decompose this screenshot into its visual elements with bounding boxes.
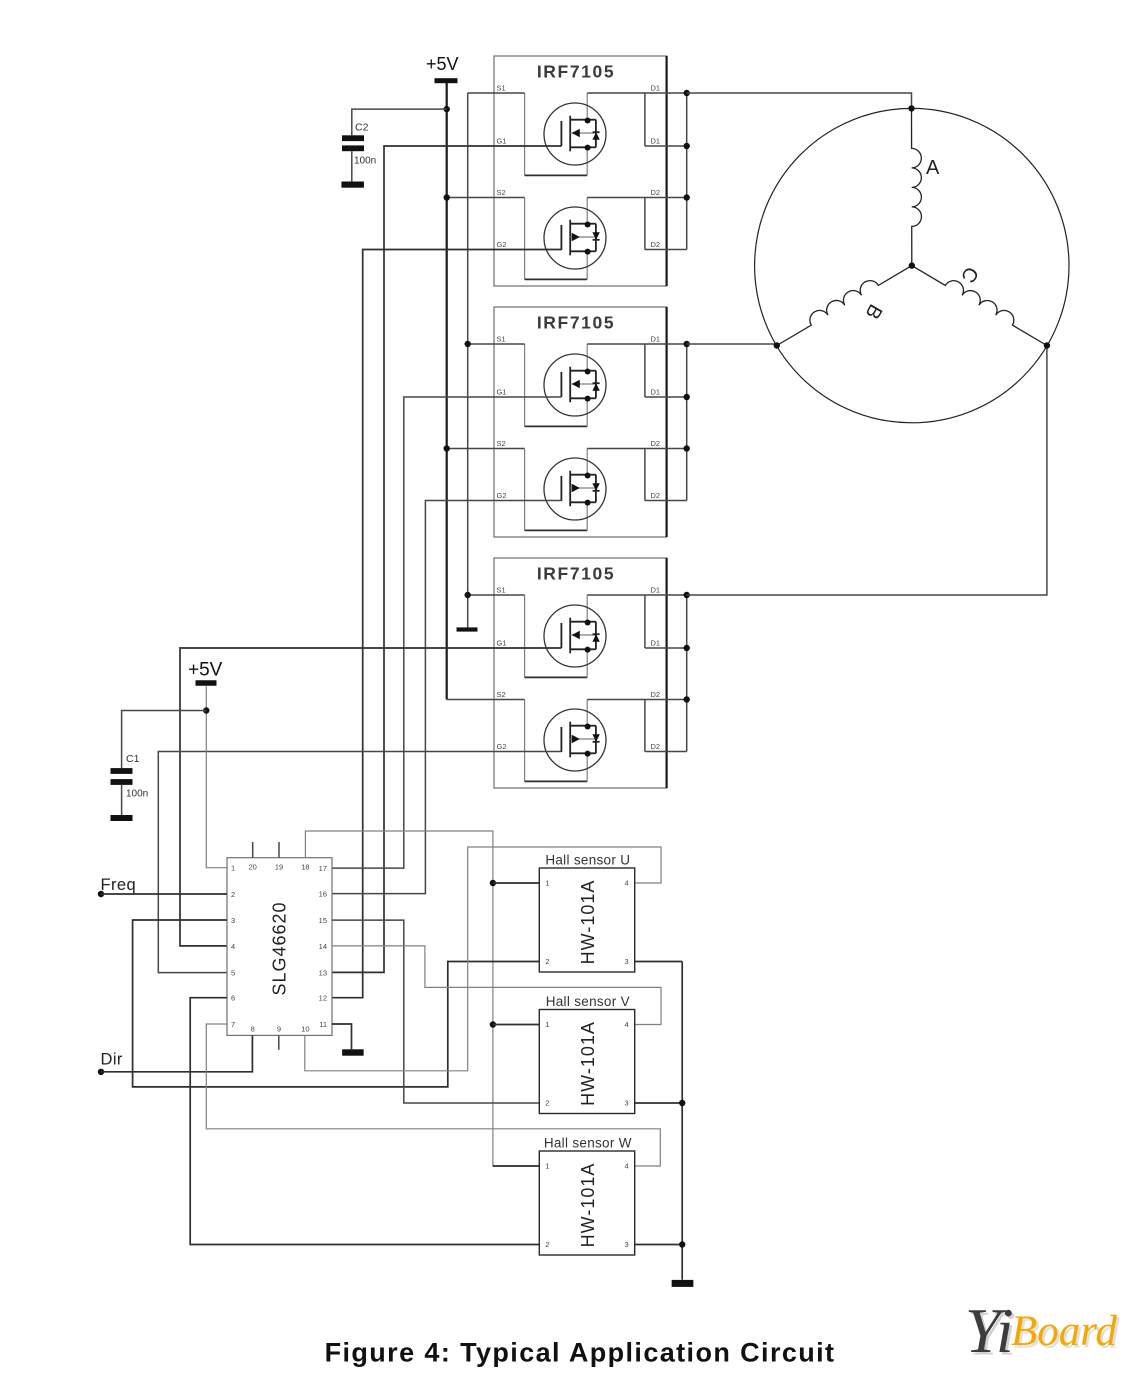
transistor U2 M2 gate bar: [560, 476, 562, 501]
transistor U2 M1 diode arrow: [592, 383, 599, 391]
wire hall U pin1: [493, 882, 539, 884]
wire U3 G1 to SLG pin 4: [180, 648, 561, 946]
motor circle: [755, 108, 1069, 422]
svg-text:S2: S2: [497, 439, 506, 448]
capacitor C2: [342, 135, 364, 141]
transistor U2 M2 source path: [524, 449, 526, 531]
svg-text:G2: G2: [497, 240, 507, 249]
wire U3 G2 to SLG pin 5: [158, 752, 561, 973]
svg-text:G2: G2: [497, 491, 507, 500]
svg-text:Hall sensor V: Hall sensor V: [546, 994, 630, 1009]
svg-text:IRF7105: IRF7105: [537, 313, 615, 333]
wire U1 D2: [587, 197, 687, 199]
svg-text:Dir: Dir: [101, 1051, 123, 1069]
transistor U2 M1 source path: [524, 344, 526, 426]
U1 D1 bracket: [644, 93, 646, 146]
transistor U1 M2 circle: [544, 207, 606, 269]
transistor U1 M2 right branch: [588, 223, 596, 225]
wire hall U pin3 to ground rail: [635, 961, 683, 963]
svg-text:12: 12: [319, 994, 327, 1003]
junction hall W pin3: [679, 1241, 685, 1247]
transistor U2 M2 body arrow: [572, 484, 580, 493]
junction +5V/C2: [444, 106, 450, 112]
transistor U3 M2 stubs: [570, 725, 587, 727]
transistor U2 M2 stubs: [570, 474, 587, 476]
svg-text:HW-101A: HW-101A: [578, 1163, 598, 1248]
MOSFET block U3 IRF7105 outline: [494, 558, 667, 788]
wire U1 G2 to SLG pin 12: [332, 250, 561, 998]
svg-text:D2: D2: [651, 439, 661, 448]
wire C2 branch: [352, 109, 447, 135]
transistor U3 M1 terminal dots: [585, 620, 591, 626]
IC SLG46620 outline: [227, 858, 332, 1036]
svg-text:1: 1: [231, 864, 235, 873]
svg-text:S1: S1: [497, 335, 506, 344]
wire hall W pin3 to ground rail: [635, 1244, 683, 1246]
wire hall V pin3 to ground rail: [635, 1102, 683, 1104]
transistor U1 M1 gate bar: [560, 121, 562, 146]
transistor U1 M2 body arrow: [572, 233, 580, 242]
wire hall V pin1: [493, 1024, 539, 1026]
stub SLG pin 19: [278, 842, 280, 858]
junction hall V pin1: [490, 1021, 496, 1027]
transistor U1 M1 right branch: [588, 119, 596, 121]
svg-text:HW-101A: HW-101A: [578, 1021, 598, 1106]
transistor U1 M2 drain riser: [586, 198, 588, 225]
junction hall U pin1: [490, 880, 496, 886]
svg-text:D1: D1: [651, 84, 661, 93]
transistor U1 M2 channel bar: [569, 220, 571, 256]
transistor U3 M2 gate bar: [560, 727, 562, 752]
wire Dir to SLG pin 8: [101, 1035, 252, 1071]
junctions U1 drain bus: [684, 90, 690, 96]
stub SLG pin 9: [278, 1035, 280, 1049]
bus U1 drains: [686, 93, 688, 250]
wire U2 G1 to SLG pin 17: [332, 397, 561, 868]
transistor U3 M1 source path: [524, 595, 526, 677]
svg-text:3: 3: [625, 1099, 629, 1108]
transistor U1 M1 source path: [524, 93, 526, 175]
transistor U3 M2 right branch: [588, 725, 596, 727]
svg-text:S2: S2: [497, 690, 506, 699]
wire U2 D2: [587, 448, 687, 450]
junction hall V pin3: [679, 1100, 685, 1106]
svg-text:3: 3: [231, 916, 235, 925]
motor center node: [909, 262, 915, 268]
transistor U3 M2 body arrow: [572, 735, 580, 744]
MOSFET block U1 IRF7105 outline: [494, 56, 667, 286]
wire +5V to SLG pin 1: [206, 686, 227, 868]
transistor U2 M2 drain riser: [586, 449, 588, 476]
capacitor C1: [111, 768, 133, 774]
svg-text:C1: C1: [126, 753, 140, 765]
transistor U1 M1 circle: [544, 103, 606, 165]
transistor U3 M1 channel bar: [569, 618, 571, 654]
svg-text:9: 9: [277, 1025, 281, 1034]
transistor U3 M2 diode arrow: [592, 734, 599, 742]
svg-text:13: 13: [319, 968, 327, 977]
node Freq: [98, 891, 104, 897]
wire U1 G1 to SLG pin 13: [332, 146, 561, 972]
wire U1 D1b pin: [645, 145, 687, 147]
ground below S-rail: [457, 627, 478, 631]
junctions U2 drain bus: [684, 341, 690, 347]
transistor U1 M1 channel bar: [569, 116, 571, 152]
wire U2 D2b pin: [645, 500, 687, 502]
motor node phase B: [774, 342, 780, 348]
wire SLG pin 7 to hall W pin4: [206, 1024, 660, 1166]
wire +5V rail (dark vertical): [446, 83, 448, 700]
transistor U2 M1 gate bar: [560, 372, 562, 397]
transistor U2 M2 circle: [544, 458, 606, 520]
svg-text:A: A: [926, 157, 940, 179]
transistor U2 M1 stubs: [570, 370, 587, 372]
svg-text:16: 16: [319, 890, 327, 899]
transistor U3 M1 right branch: [588, 621, 596, 623]
motor coil B: [772, 257, 912, 345]
transistor U3 M1 gate bar: [560, 623, 562, 648]
wire SLG pin 3 to hall U pin2: [133, 920, 540, 1087]
svg-text:Board: Board: [1011, 1308, 1117, 1355]
transistor U3 M2 terminal dots: [585, 724, 591, 730]
svg-text:+5V: +5V: [426, 54, 459, 74]
svg-text:D1: D1: [651, 586, 661, 595]
svg-text:C2: C2: [355, 122, 369, 134]
wire U3 S2: [447, 699, 525, 701]
junctions U3 drain bus: [684, 592, 690, 598]
svg-text:4: 4: [231, 942, 235, 951]
svg-text:2: 2: [231, 890, 235, 899]
transistor U1 M2 diode arrow: [592, 232, 599, 240]
bus U3 drains: [686, 595, 688, 752]
svg-text:3: 3: [625, 957, 629, 966]
svg-text:2: 2: [545, 1240, 549, 1249]
wire U1 S1: [468, 92, 525, 94]
wire U1 D2b pin: [645, 249, 687, 251]
transistor U1 M1 body arrow: [572, 129, 580, 138]
svg-text:1: 1: [545, 879, 549, 888]
hall ground rail: [681, 962, 683, 1280]
transistor U2 M1 right branch: [588, 370, 596, 372]
wire U2 S2: [447, 448, 525, 450]
svg-text:100n: 100n: [126, 789, 148, 800]
svg-text:D1: D1: [651, 388, 661, 397]
ground at SLG pin 11: [342, 1049, 364, 1055]
svg-text:G1: G1: [497, 388, 507, 397]
wire S-rail (x=467.7): [467, 93, 469, 628]
wire U3 D2b pin: [645, 751, 687, 753]
wire phase A to motor: [687, 93, 912, 108]
motor node phase C: [1044, 342, 1050, 348]
wire U1 S2: [447, 197, 525, 199]
svg-text:6: 6: [231, 994, 235, 1003]
transistor U3 M2 channel bar: [569, 722, 571, 758]
wire U1 D1: [587, 92, 687, 94]
svg-text:19: 19: [275, 863, 283, 872]
svg-text:D2: D2: [651, 742, 661, 751]
wire Freq to SLG pin 2: [101, 893, 227, 895]
junction U2 S2 on +5V rail: [444, 445, 450, 451]
U2 D2 bracket: [644, 449, 646, 501]
+5V supply bar (top): [435, 78, 458, 83]
hall sensor W box: [539, 1151, 634, 1255]
svg-text:+5V: +5V: [188, 660, 223, 681]
svg-text:14: 14: [319, 942, 327, 951]
svg-text:D2: D2: [651, 188, 661, 197]
transistor U2 M2 right branch: [588, 474, 596, 476]
ground at hall rail: [672, 1280, 694, 1287]
svg-text:2: 2: [545, 1099, 549, 1108]
svg-text:1: 1: [545, 1162, 549, 1171]
svg-text:7: 7: [231, 1020, 235, 1029]
transistor U3 M2 source path: [524, 700, 526, 782]
svg-text:S1: S1: [497, 84, 506, 93]
U3 D1 bracket: [644, 595, 646, 648]
svg-text:100n: 100n: [354, 156, 376, 167]
wire hall W pin1: [493, 1165, 539, 1167]
junction U3 S1 on S-rail: [465, 592, 471, 598]
transistor U1 M1 terminal dots: [585, 118, 591, 124]
wire U3 S1: [468, 594, 525, 596]
transistor U2 M2 diode arrow: [592, 483, 599, 491]
transistor U1 M1 diode arrow: [592, 132, 599, 140]
wire phase B to motor: [687, 343, 777, 345]
junction U2 S1 on S-rail: [465, 341, 471, 347]
svg-text:4: 4: [625, 1020, 629, 1029]
hall sensor U box: [539, 868, 634, 972]
svg-text:IRF7105: IRF7105: [537, 62, 615, 82]
svg-text:HW-101A: HW-101A: [578, 880, 598, 965]
wire SLG pin 11 to ground: [332, 1024, 352, 1049]
transistor U2 M2 terminal dots: [585, 473, 591, 479]
wire U2 D1: [587, 343, 687, 345]
U1 D2 bracket: [644, 198, 646, 250]
+5V supply bar (left): [196, 680, 217, 686]
wire SLG pin 14 to hall V pin4: [332, 946, 661, 1025]
wire C2 to ground: [351, 151, 353, 181]
svg-text:5: 5: [231, 969, 235, 978]
transistor U2 M1 channel bar: [569, 367, 571, 403]
svg-text:S1: S1: [497, 586, 506, 595]
transistor U1 M1 stubs: [570, 119, 587, 121]
transistor U3 M2 circle: [544, 709, 606, 771]
transistor U3 M1 circle: [544, 605, 606, 667]
svg-text:11: 11: [319, 1020, 327, 1029]
wire C1 branch: [122, 711, 207, 769]
svg-text:Hall sensor W: Hall sensor W: [544, 1136, 632, 1151]
wire U2 S1: [468, 343, 525, 345]
transistor U3 M1 drain riser: [586, 595, 588, 623]
svg-text:1: 1: [545, 1020, 549, 1029]
transistor U2 M1 circle: [544, 354, 606, 416]
svg-text:Yi: Yi: [965, 1295, 1014, 1366]
wire SLG pin 10 to hall U pin4: [305, 847, 661, 1071]
transistor U3 M1 diode arrow: [592, 634, 599, 642]
svg-text:4: 4: [625, 879, 629, 888]
svg-text:D2: D2: [651, 491, 661, 500]
transistor U2 M2 channel bar: [569, 471, 571, 507]
svg-text:D2: D2: [651, 240, 661, 249]
U3 right edge (dark): [665, 558, 667, 788]
svg-text:8: 8: [251, 1025, 255, 1034]
wire phase C to motor: [687, 346, 1047, 596]
svg-text:2: 2: [545, 957, 549, 966]
svg-text:17: 17: [319, 864, 327, 873]
svg-text:G1: G1: [497, 137, 507, 146]
svg-text:3: 3: [625, 1240, 629, 1249]
svg-text:D1: D1: [651, 137, 661, 146]
node Dir: [98, 1069, 104, 1075]
wire U2 G2 to SLG pin 16: [332, 501, 561, 894]
stub SLG pin 20: [252, 842, 254, 858]
junction +5V/C1: [203, 707, 209, 713]
wire SLG pin 18 to hall VCC rail: [305, 831, 539, 1166]
U3 D2 bracket: [644, 700, 646, 752]
svg-text:10: 10: [301, 1025, 309, 1034]
motor coil A: [912, 108, 922, 265]
svg-text:Hall sensor U: Hall sensor U: [545, 853, 630, 868]
transistor U1 M1 drain riser: [586, 93, 588, 121]
transistor U1 M2 terminal dots: [585, 222, 591, 228]
transistor U2 M1 terminal dots: [585, 369, 591, 375]
U1 right edge (dark): [665, 56, 667, 286]
U2 right edge (dark): [665, 307, 667, 537]
wire C1 to ground: [121, 785, 123, 815]
svg-text:D1: D1: [651, 639, 661, 648]
transistor U1 M2 gate bar: [560, 225, 562, 250]
ground below C1: [111, 815, 133, 821]
transistor U1 M2 stubs: [570, 223, 587, 225]
svg-text:18: 18: [301, 863, 309, 872]
wire U3 D1b pin: [645, 647, 687, 649]
transistor U3 M1 body arrow: [572, 631, 580, 640]
logo YiBoard: [965, 1295, 1120, 1369]
svg-text:IRF7105: IRF7105: [537, 564, 615, 584]
svg-text:D2: D2: [651, 690, 661, 699]
wire SLG pin 15 to hall V pin2: [332, 920, 539, 1103]
junction U1 S2 on +5V rail: [444, 194, 450, 200]
motor node phase A: [908, 105, 914, 111]
wire U2 D1b pin: [645, 396, 687, 398]
transistor U2 M1 drain riser: [586, 344, 588, 372]
motor coil C: [912, 257, 1052, 345]
svg-text:20: 20: [249, 863, 257, 872]
MOSFET block U2 IRF7105 outline: [494, 307, 667, 537]
U2 D1 bracket: [644, 344, 646, 397]
svg-text:Figure 4: Typical Application: Figure 4: Typical Application Circuit: [325, 1337, 836, 1367]
svg-text:15: 15: [319, 916, 327, 925]
transistor U1 M2 source path: [524, 198, 526, 280]
svg-text:Freq: Freq: [101, 876, 137, 894]
svg-text:G2: G2: [497, 742, 507, 751]
ground below C2: [341, 182, 364, 188]
svg-text:G1: G1: [497, 639, 507, 648]
svg-text:4: 4: [625, 1162, 629, 1171]
svg-text:S2: S2: [497, 188, 506, 197]
hall sensor V box: [539, 1010, 634, 1114]
bus U2 drains: [686, 344, 688, 501]
svg-text:SLG46620: SLG46620: [270, 901, 290, 995]
wire SLG pin 6 to hall W pin2: [190, 998, 540, 1245]
wire U3 D2: [587, 699, 687, 701]
transistor U2 M1 body arrow: [572, 380, 580, 389]
transistor U3 M2 drain riser: [586, 700, 588, 727]
transistor U3 M1 stubs: [570, 621, 587, 623]
svg-text:D1: D1: [651, 335, 661, 344]
wire U3 D1: [587, 594, 687, 596]
